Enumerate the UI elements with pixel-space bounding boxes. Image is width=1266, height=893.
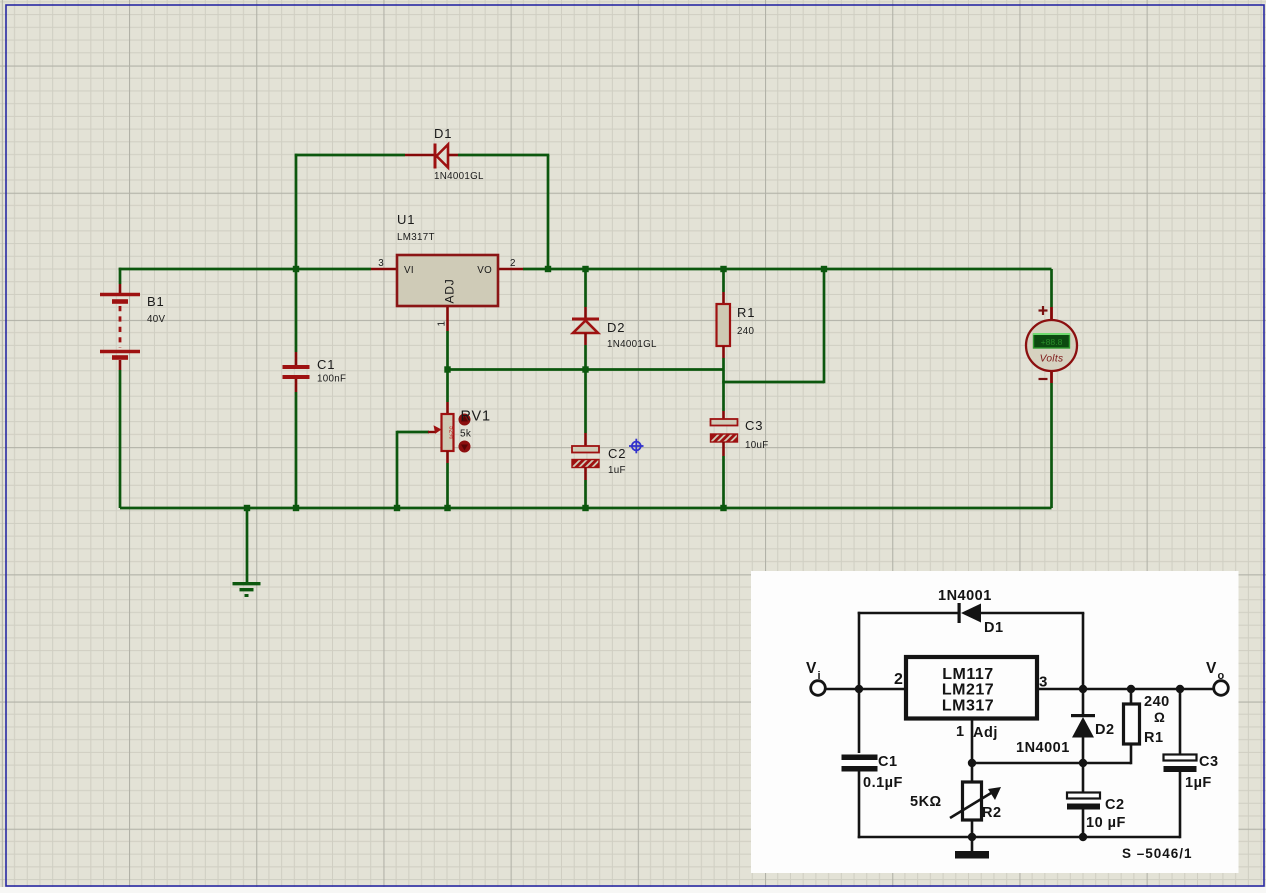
svg-text:C2: C2 <box>1105 797 1125 813</box>
wire C1 top <box>295 269 298 352</box>
svg-text:10 µF: 10 µF <box>1086 815 1126 831</box>
wire C1 bottom (inset) <box>858 771 861 838</box>
svg-text:R1: R1 <box>1144 730 1164 746</box>
svg-text:VI: VI <box>404 265 414 276</box>
svg-text:C1: C1 <box>317 357 335 372</box>
RV1 decrement button <box>459 441 471 453</box>
inset datasheet panel <box>751 571 1239 873</box>
svg-text:D2: D2 <box>1095 722 1115 738</box>
node RV1-wiper/GND junction <box>394 505 400 511</box>
wire D1 left leg (inset) <box>858 612 861 689</box>
node C2/GND junction (inset) <box>1079 833 1087 841</box>
battery B1 <box>100 284 140 370</box>
wire RV1 bottom <box>446 463 449 508</box>
wire D1 right leg <box>547 155 550 269</box>
svg-text:240: 240 <box>737 326 754 337</box>
terminal Vi <box>811 681 826 696</box>
svg-text:1: 1 <box>437 321 448 327</box>
svg-text:RV1: RV1 <box>461 409 491 425</box>
svg-text:0.1µF: 0.1µF <box>863 775 903 791</box>
svg-text:40V: 40V <box>147 314 165 325</box>
wire <box>119 268 120 271</box>
wire C1 bottom <box>295 392 298 508</box>
resistor R1 <box>717 292 731 358</box>
wire ground rail left (inset) <box>858 836 972 839</box>
svg-text:2: 2 <box>894 671 903 688</box>
label LM117/LM217/LM317 <box>942 666 994 715</box>
node ADJ junction <box>444 366 450 372</box>
wire D1 top left <box>295 154 405 157</box>
svg-text:1: 1 <box>956 724 965 740</box>
ground (inset) <box>955 851 989 859</box>
svg-text:C2: C2 <box>608 446 626 461</box>
svg-text:i: i <box>818 670 822 682</box>
svg-text:D1: D1 <box>984 620 1004 636</box>
wire VI rail <box>120 268 371 271</box>
wire R1 top (inset) <box>1130 689 1133 704</box>
svg-text:10uF: 10uF <box>745 440 769 451</box>
wire D2 top <box>584 269 587 307</box>
wire ADJ horizontal <box>448 368 724 371</box>
wire D1 top right (inset) <box>981 612 1084 615</box>
diode D1 (inset) <box>958 603 982 623</box>
svg-text:R1: R1 <box>737 305 755 320</box>
potentiometer R2 (inset) <box>950 782 1001 820</box>
wire C3 bottom (inset) <box>1179 772 1182 838</box>
wire D1 left leg <box>295 154 298 269</box>
wire battery bottom <box>119 370 122 508</box>
wire output L horizontal <box>722 381 824 384</box>
svg-text:LM317: LM317 <box>942 698 994 715</box>
wire C1 top (inset) <box>858 689 861 753</box>
wire ground rail right (inset) <box>972 836 1180 839</box>
svg-text:Ω: Ω <box>1154 710 1165 725</box>
svg-text:3: 3 <box>1039 674 1048 691</box>
svg-text:1uF: 1uF <box>608 465 626 476</box>
svg-text:LM317T: LM317T <box>397 232 435 243</box>
svg-text:LM117: LM117 <box>942 666 993 683</box>
svg-text:S –5046/1: S –5046/1 <box>1122 846 1193 861</box>
node VI/C1 junction <box>293 266 299 272</box>
wire D1 top left (inset) <box>858 612 959 615</box>
RV1 increment button <box>459 414 471 426</box>
svg-text:2: 2 <box>510 258 516 269</box>
node C3/VO junction (inset) <box>1176 685 1184 693</box>
wire Adj horizontal (inset) <box>972 762 1131 765</box>
resistor R1 (inset) <box>1124 704 1140 744</box>
node D2/ADJ junction <box>582 366 588 372</box>
svg-text:100nF: 100nF <box>317 374 346 385</box>
wire RV1 wiper vertical <box>396 431 399 508</box>
wire battery top <box>119 268 122 284</box>
wire D2 to C2 <box>584 345 587 433</box>
svg-text:D2: D2 <box>607 320 625 335</box>
ground <box>233 584 261 596</box>
node ground junction <box>244 505 250 511</box>
wire R1 top <box>722 269 725 292</box>
svg-text:B1: B1 <box>147 294 165 309</box>
svg-text:R2: R2 <box>982 805 1002 821</box>
node RV1/GND junction <box>444 505 450 511</box>
wire voltmeter bottom <box>1050 383 1053 508</box>
svg-text:VO: VO <box>477 265 492 276</box>
wire Vi to IC pin 2 <box>826 688 906 691</box>
svg-text:52%: 52% <box>448 426 455 439</box>
wire ADJ vertical <box>446 331 449 402</box>
capacitor C1 (inset) <box>842 755 878 772</box>
wire ground stub <box>246 508 249 582</box>
wire R1 bottom (inset) <box>1130 744 1133 764</box>
wire VO rail (inset) <box>1037 688 1214 691</box>
node C2/GND junction <box>582 505 588 511</box>
svg-text:o: o <box>1218 670 1225 682</box>
svg-text:ADJ: ADJ <box>443 278 457 303</box>
svg-text:1N4001: 1N4001 <box>1016 740 1070 756</box>
svg-text:5KΩ: 5KΩ <box>910 794 942 810</box>
capacitor C2 (inset) <box>1067 793 1100 810</box>
node R1/VO junction (inset) <box>1127 685 1135 693</box>
capacitor C3 (inset) <box>1164 755 1197 773</box>
wire VO rail <box>523 268 1052 271</box>
node R1/VO junction <box>720 266 726 272</box>
voltmeter <box>1026 307 1077 383</box>
node D1/VO junction <box>545 266 551 272</box>
node Adj junction (inset) <box>968 759 976 767</box>
wire D1 top right <box>458 154 549 157</box>
margin strip bottom <box>0 887 1266 893</box>
node C3/GND junction <box>720 505 726 511</box>
node D2/VO junction <box>582 266 588 272</box>
wire C2 bottom <box>584 480 587 508</box>
svg-text:Volts: Volts <box>1040 354 1064 365</box>
capacitor C2 <box>570 433 602 480</box>
capacitor C1 <box>283 352 310 392</box>
node D1/VO junction (inset) <box>1079 685 1087 693</box>
wire D2 bottom (inset) <box>1082 737 1085 763</box>
node R2/GND junction (inset) <box>968 833 976 841</box>
node C1/GND junction <box>293 505 299 511</box>
wire ground rail <box>120 507 1052 510</box>
svg-text:V: V <box>806 660 817 677</box>
wire R1 bottom to C3 <box>722 358 725 411</box>
origin marker <box>629 439 644 454</box>
voltmeter minus <box>1039 378 1048 380</box>
svg-text:240: 240 <box>1144 694 1170 710</box>
node D2/Adj junction (inset) <box>1079 759 1087 767</box>
diode D1 <box>405 144 458 169</box>
wire RV1 wiper horizontal <box>397 431 429 434</box>
diode D2 (inset) <box>1071 714 1095 738</box>
wire D2 top (inset) <box>1082 689 1085 714</box>
wire D1 right leg (inset) <box>1082 613 1085 689</box>
wire C2 top (inset) <box>1082 763 1085 793</box>
svg-text:C3: C3 <box>745 418 763 433</box>
svg-text:1N4001GL: 1N4001GL <box>434 171 484 182</box>
diode D2 <box>572 307 599 345</box>
voltmeter plus <box>1039 306 1048 315</box>
svg-text:1N4001GL: 1N4001GL <box>607 339 657 350</box>
svg-text:1µF: 1µF <box>1185 775 1212 791</box>
svg-text:Adj: Adj <box>973 725 998 741</box>
svg-text:C1: C1 <box>878 754 898 770</box>
svg-text:1N4001: 1N4001 <box>938 588 992 604</box>
terminal Vo <box>1214 681 1229 696</box>
capacitor C3 <box>709 411 741 456</box>
svg-text:LM217: LM217 <box>942 682 994 699</box>
wire R2 bottom (inset) <box>971 820 974 837</box>
svg-text:D1: D1 <box>434 126 452 141</box>
regulator IC box (inset) <box>906 657 1037 719</box>
wire R2 top (inset) <box>971 763 974 782</box>
node C3-branch/VO junction <box>821 266 827 272</box>
potentiometer RV1 <box>428 402 455 463</box>
svg-text:C3: C3 <box>1199 754 1219 770</box>
wire C3 top (inset) <box>1179 689 1182 754</box>
svg-text:+88.8: +88.8 <box>1041 337 1063 347</box>
wire C2 bottom (inset) <box>1082 809 1085 837</box>
node Vi junction (inset) <box>855 685 863 693</box>
svg-text:V: V <box>1206 660 1217 677</box>
wire ground stub (inset) <box>971 837 974 851</box>
wire Adj pin (inset) <box>971 718 974 763</box>
svg-text:5k: 5k <box>460 429 472 440</box>
wire C3 bottom <box>722 456 725 508</box>
regulator U1 LM317 <box>371 255 523 331</box>
wire output L vertical <box>823 269 826 383</box>
svg-text:3: 3 <box>378 258 384 269</box>
wire voltmeter top <box>1050 269 1053 307</box>
svg-text:U1: U1 <box>397 212 415 227</box>
